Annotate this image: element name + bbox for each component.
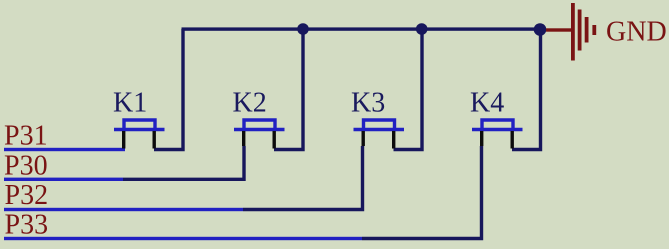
svg-text:K3: K3 <box>351 88 385 119</box>
push-button K3 <box>354 120 405 149</box>
push-button K2 <box>234 120 285 149</box>
wire top GND rail <box>182 27 541 30</box>
push-button K1 <box>114 120 165 149</box>
wire P32 net dark segment to K3 left pin <box>243 146 363 210</box>
svg-text:GND: GND <box>606 17 667 48</box>
wire P33 net bright segment <box>4 237 362 240</box>
svg-text:P32: P32 <box>5 180 49 211</box>
svg-text:P33: P33 <box>5 210 49 241</box>
svg-text:K2: K2 <box>233 88 267 119</box>
svg-text:K1: K1 <box>113 88 147 119</box>
junction at K3 riser <box>416 23 428 35</box>
push-button K4 <box>472 120 523 149</box>
wire K1 riser <box>154 29 183 150</box>
wire P32 net bright segment <box>4 208 243 211</box>
wire K2 riser <box>274 29 303 150</box>
wire K3 riser <box>394 29 423 150</box>
wire P31 net <box>4 148 125 151</box>
junction at K4 riser / GND <box>534 23 547 36</box>
ground symbol <box>546 3 596 61</box>
svg-text:P31: P31 <box>4 121 48 152</box>
svg-text:K4: K4 <box>470 88 504 119</box>
wire P30 net bright segment <box>4 178 123 181</box>
junction at K2 riser <box>297 23 309 35</box>
svg-text:P30: P30 <box>4 150 48 181</box>
wire P30 net dark segment to K2 left pin <box>123 146 244 179</box>
wire P33 net dark segment to K4 left pin <box>362 146 482 239</box>
wire K4 riser <box>512 29 541 150</box>
